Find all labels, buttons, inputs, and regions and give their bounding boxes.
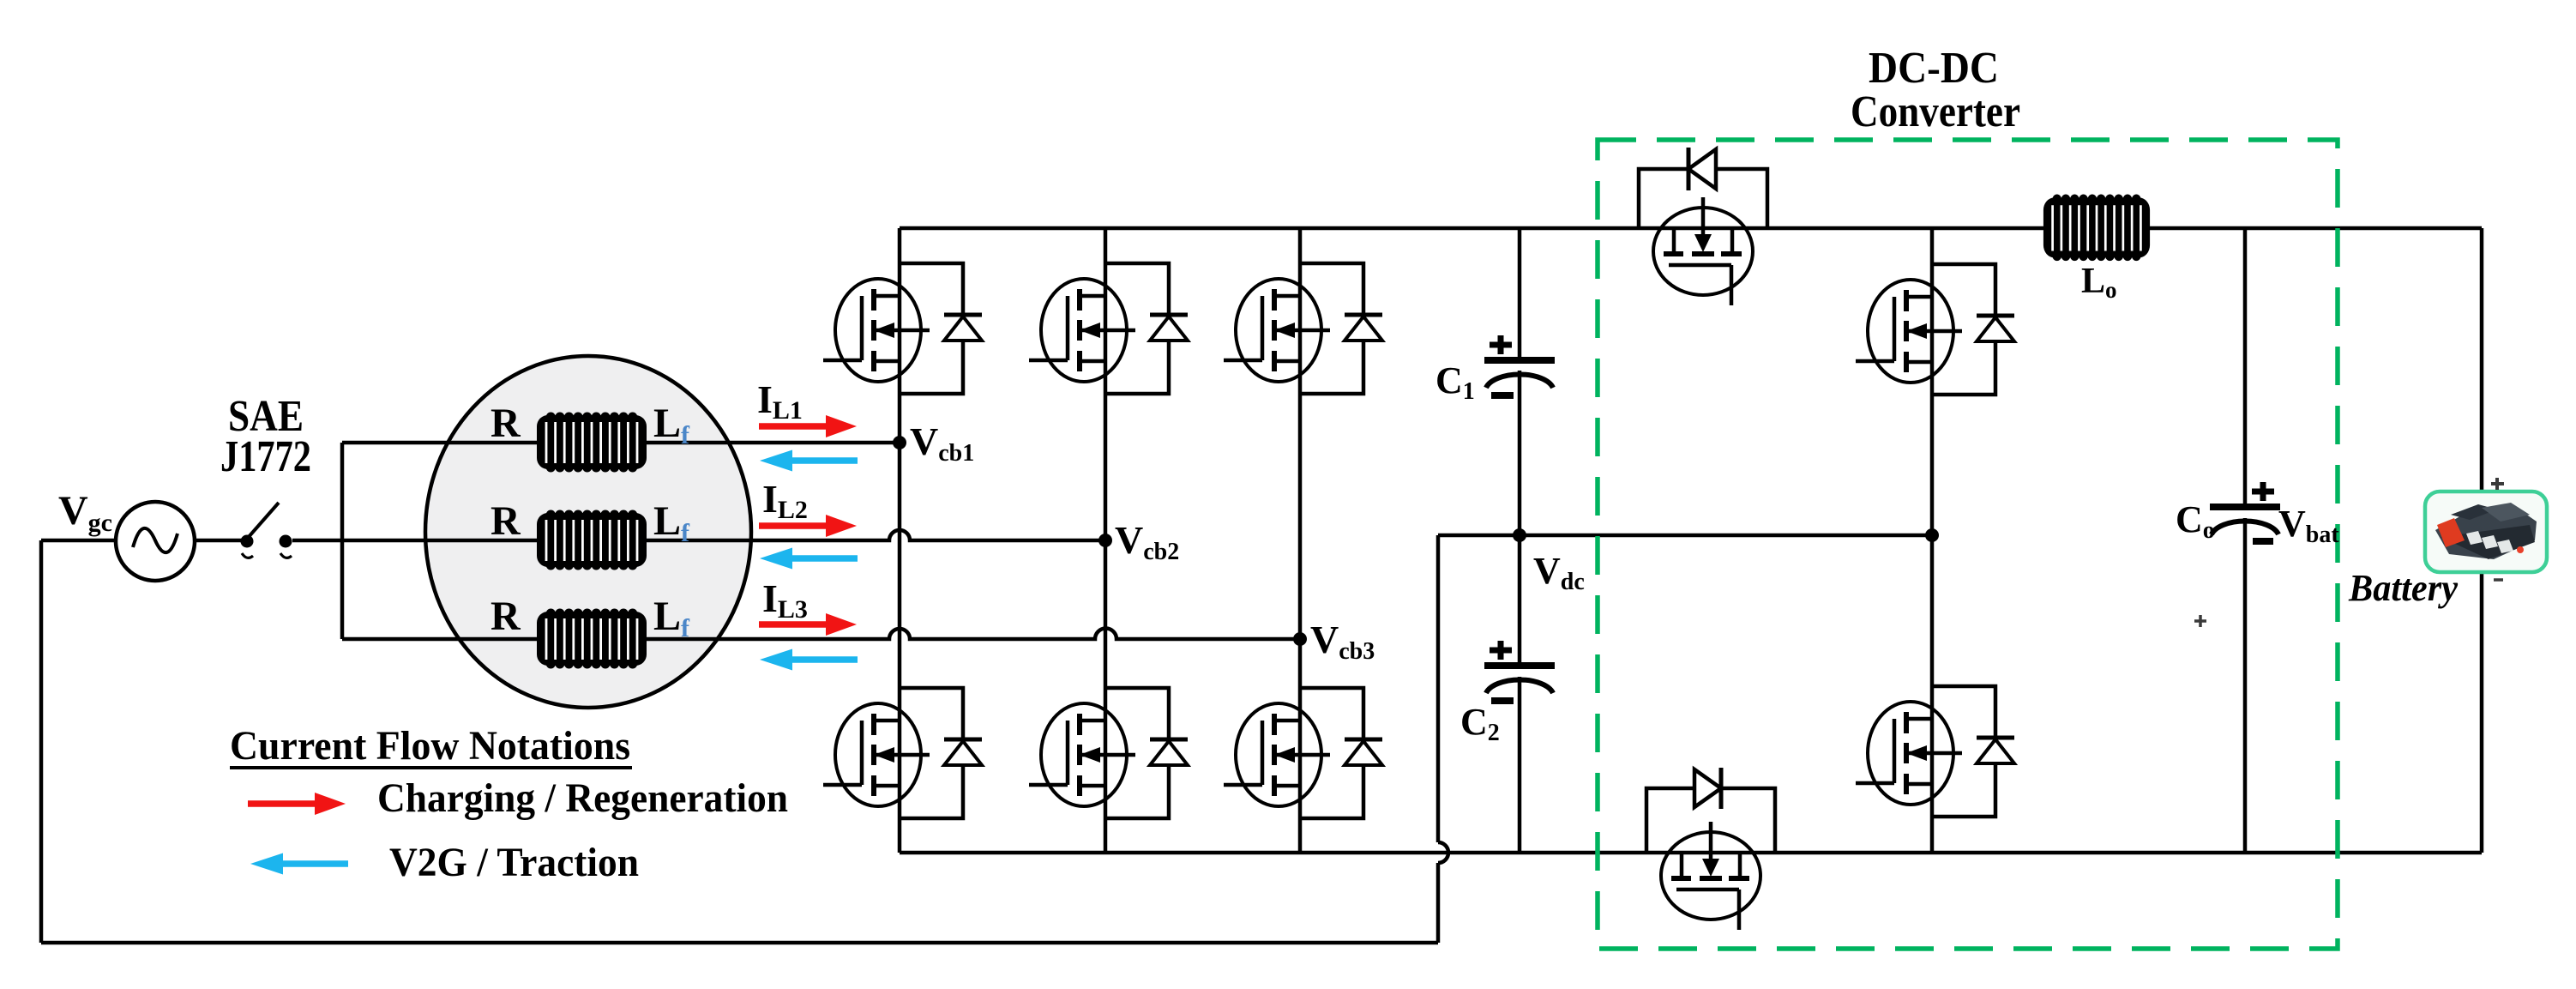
- svg-text:Charging / Regeneration: Charging / Regeneration: [377, 775, 788, 821]
- svg-text:V2G / Traction: V2G / Traction: [389, 840, 639, 885]
- svg-text:Current Flow Notations: Current Flow Notations: [230, 723, 630, 769]
- svg-text:Battery: Battery: [2348, 567, 2458, 609]
- svg-text:J1772: J1772: [220, 432, 311, 481]
- svg-text:R: R: [491, 594, 521, 639]
- svg-text:DC-DC: DC-DC: [1869, 44, 1999, 93]
- svg-text:Converter: Converter: [1851, 87, 2020, 136]
- svg-text:R: R: [491, 401, 521, 446]
- svg-text:R: R: [491, 498, 521, 544]
